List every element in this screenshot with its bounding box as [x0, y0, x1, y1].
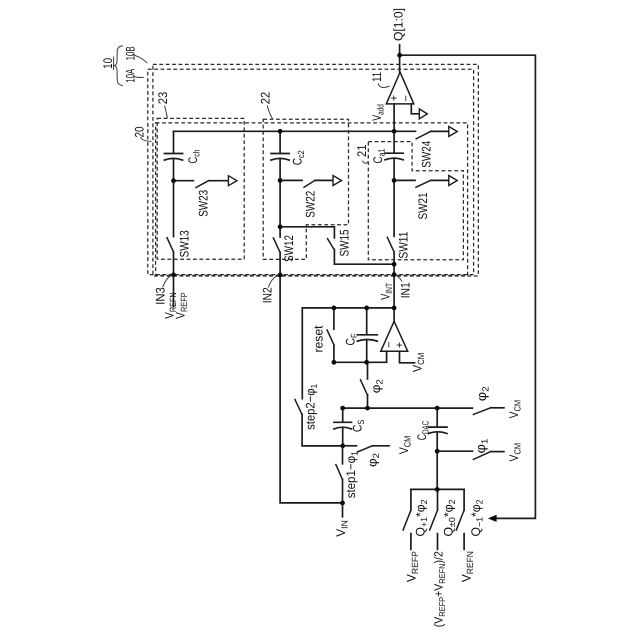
svg-text:step1−φ1: step1−φ1 [344, 451, 360, 498]
svg-text:10B: 10B [124, 46, 138, 60]
svg-text:21: 21 [355, 145, 369, 158]
svg-text:22: 22 [259, 92, 273, 105]
svg-text:Ca1: Ca1 [371, 149, 387, 164]
svg-text:φ2: φ2 [474, 386, 491, 401]
svg-text:20: 20 [133, 126, 147, 137]
svg-text:SW13: SW13 [178, 230, 192, 257]
svg-text:CDAC: CDAC [415, 420, 431, 440]
svg-text:SW12: SW12 [282, 235, 296, 262]
svg-text:IN1: IN1 [399, 282, 413, 298]
svg-text:11: 11 [370, 72, 384, 82]
svg-text:VREFP: VREFP [405, 551, 421, 582]
svg-text:SW15: SW15 [338, 229, 352, 256]
svg-text:23: 23 [156, 92, 170, 105]
svg-text:IN2: IN2 [260, 287, 274, 303]
svg-text:SW22: SW22 [304, 191, 318, 218]
svg-text:VCM: VCM [507, 400, 523, 419]
svg-text:(VREFP+VREFN)/2: (VREFP+VREFN)/2 [432, 551, 447, 627]
svg-text:IN3: IN3 [153, 287, 167, 305]
svg-text:step2−φ1: step2−φ1 [304, 384, 320, 430]
svg-text:10: 10 [101, 58, 115, 69]
svg-text:VIN: VIN [334, 520, 350, 537]
svg-text:VREFN: VREFN [460, 551, 476, 582]
svg-text:reset: reset [312, 325, 326, 353]
svg-text:+: + [394, 342, 406, 348]
svg-text:Q±0*φ2: Q±0*φ2 [442, 500, 458, 537]
svg-text:φ2: φ2 [365, 453, 381, 467]
svg-text:Q+1*φ2: Q+1*φ2 [414, 500, 430, 537]
svg-text:Cch: Cch [186, 150, 202, 164]
svg-text:CS: CS [351, 420, 367, 433]
svg-text:Cc2: Cc2 [291, 150, 307, 165]
svg-text:φ2: φ2 [369, 379, 385, 393]
svg-text:−: − [400, 95, 412, 101]
svg-text:φ1: φ1 [473, 439, 490, 454]
svg-text:VCM: VCM [397, 436, 413, 455]
svg-text:+: + [388, 95, 400, 101]
svg-text:SW21: SW21 [416, 192, 430, 219]
svg-text:Vadd: Vadd [370, 104, 386, 121]
svg-text:VINT: VINT [379, 283, 395, 300]
svg-text:CF: CF [344, 333, 360, 345]
svg-text:SW24: SW24 [420, 141, 434, 168]
svg-text:10A: 10A [124, 68, 138, 82]
svg-text:Q−1*φ2: Q−1*φ2 [469, 499, 485, 536]
svg-text:Q[1:0]: Q[1:0] [391, 8, 405, 41]
svg-text:SW11: SW11 [396, 232, 410, 259]
svg-text:SW23: SW23 [197, 190, 211, 217]
svg-text:VCM: VCM [507, 443, 523, 462]
